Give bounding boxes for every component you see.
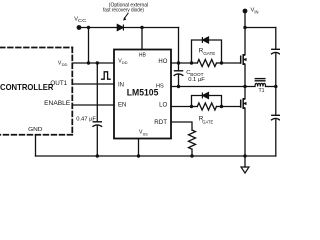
svg-text:EN: EN xyxy=(118,103,126,109)
svg-text:OUT1: OUT1 xyxy=(50,80,67,87)
svg-text:IN: IN xyxy=(118,83,124,89)
svg-text:DD: DD xyxy=(122,60,128,65)
svg-text:CONTROLLER: CONTROLLER xyxy=(0,82,54,92)
svg-text:SS: SS xyxy=(143,131,149,136)
svg-text:ENABLE: ENABLE xyxy=(44,100,71,107)
svg-text:0.1 µF: 0.1 µF xyxy=(188,77,205,83)
svg-text:fast recovery diode): fast recovery diode) xyxy=(103,8,144,14)
svg-text:HS: HS xyxy=(156,83,164,89)
svg-text:GND: GND xyxy=(28,127,43,133)
svg-text:HB: HB xyxy=(139,53,147,59)
svg-text:RDT: RDT xyxy=(154,119,167,126)
svg-text:GATE: GATE xyxy=(203,51,215,56)
svg-text:VCC: VCC xyxy=(74,16,86,23)
svg-text:T1: T1 xyxy=(259,88,265,94)
svg-text:LM5105: LM5105 xyxy=(127,88,159,98)
svg-text:HO: HO xyxy=(158,59,167,65)
svg-text:LO: LO xyxy=(159,102,167,108)
svg-text:GATE: GATE xyxy=(202,119,213,124)
svg-text:DD: DD xyxy=(62,62,68,67)
svg-text:0.47 µF: 0.47 µF xyxy=(76,117,96,123)
svg-text:VIN: VIN xyxy=(251,8,259,15)
